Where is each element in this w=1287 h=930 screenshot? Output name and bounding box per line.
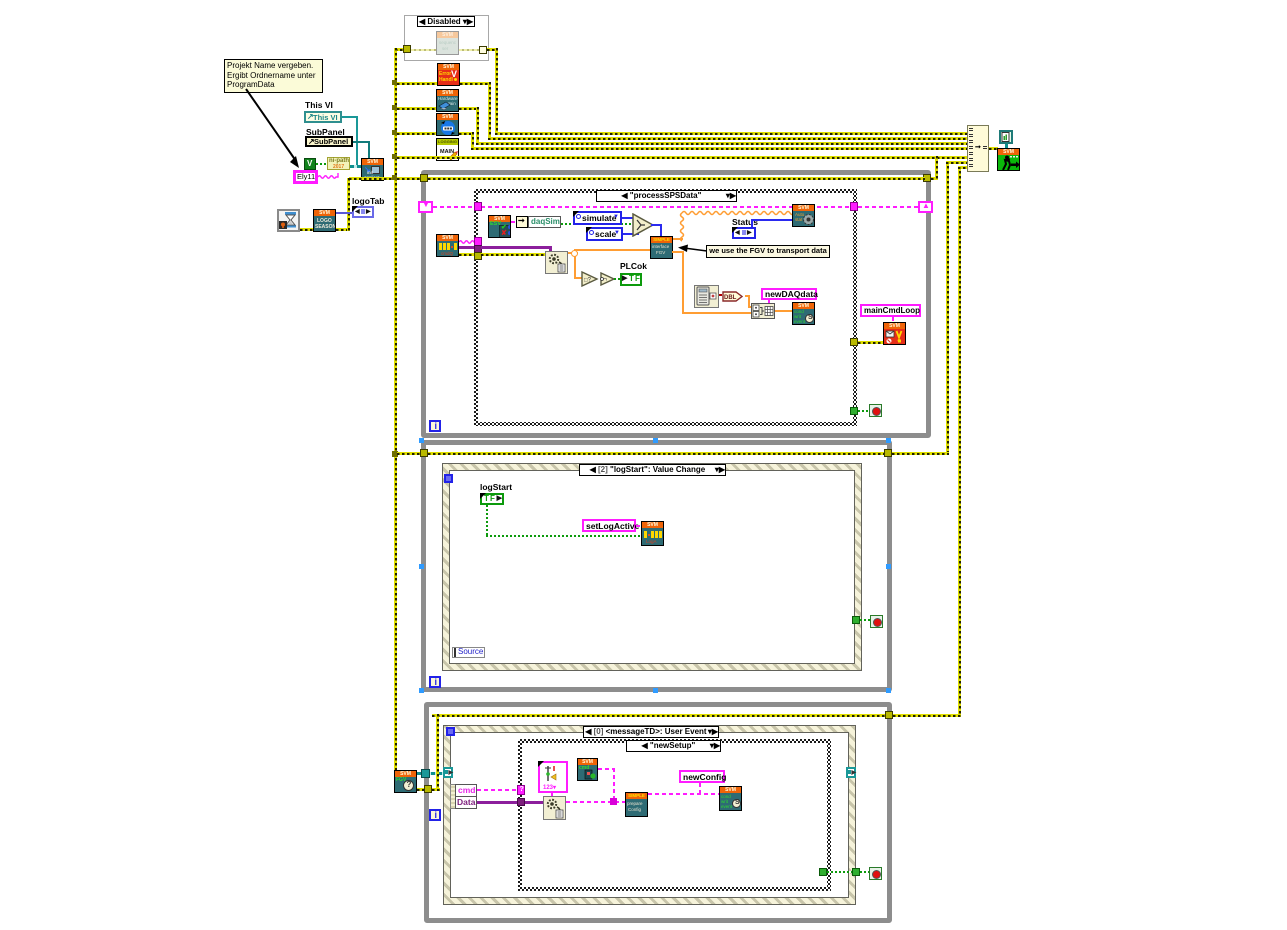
- tunnel case1 error: [474, 252, 482, 260]
- label logoTab: [352, 196, 384, 206]
- shift register right (pink): [918, 201, 933, 213]
- tunnel case1 bottom-right green: [850, 407, 858, 415]
- orange wire FGV down to bundle: [672, 251, 684, 253]
- green wire to stop3: [860, 871, 870, 873]
- comment: Projekt Name vergeben: [224, 59, 323, 93]
- dynamic event terminal left: [443, 767, 453, 778]
- label logStart: [480, 482, 512, 492]
- VI SVM scheduler: [436, 113, 459, 136]
- disabled grayed SVM icon: [436, 31, 459, 55]
- label This VI: [305, 100, 333, 110]
- VI LOGO SEASON: [313, 209, 336, 232]
- tunnel loop2 right: [884, 449, 892, 457]
- green wire case3 to event border: [827, 871, 854, 873]
- pink wire newConfig down: [699, 783, 701, 793]
- error wire across loop1 top: [428, 177, 925, 180]
- boolean constant V: [304, 158, 316, 170]
- purple wire in case to gears: [481, 246, 552, 249]
- orange wire bundle to cond write: [775, 310, 792, 312]
- label SubPanel: [306, 127, 345, 137]
- error wire merge to exit VI: [989, 147, 998, 150]
- error wires Hardware Main: [397, 107, 436, 110]
- VI locked hourglass: [277, 209, 300, 232]
- comment arrow (we use the FGV): [676, 243, 710, 255]
- error wire into loop1 left tunnel: [397, 177, 424, 180]
- iteration terminal i loop3: [429, 809, 441, 821]
- label PLCok: [620, 261, 647, 271]
- string daqSim: [528, 216, 561, 228]
- pale wire inside disabled: [411, 49, 436, 51]
- VI SVM AutoStat: [792, 204, 815, 227]
- stop button 2: [870, 615, 883, 628]
- tunnel case1 pink wavy: [474, 237, 482, 246]
- green wire to stop2: [860, 619, 871, 621]
- event structure 3 title: [583, 726, 719, 738]
- arrow from comment to Ely11: [220, 85, 315, 180]
- blue wire select to FGV: [651, 224, 662, 226]
- terminal logStart: [480, 493, 504, 505]
- stop button 3: [869, 867, 882, 880]
- tunnel case3 pink ?: [517, 785, 525, 795]
- tunnel case1 right pink: [850, 202, 858, 211]
- waveform wavy wire FGV up and right: [670, 210, 796, 245]
- pink wire label to red SVM: [892, 317, 894, 323]
- event timeout terminal loop2: [444, 474, 453, 483]
- error wire: disabled left tunnel to main vertical: [395, 48, 403, 51]
- error wire cmdQ to case: [459, 253, 475, 256]
- control This VI (VI refnum): [304, 111, 342, 123]
- tunnel case1 purple: [474, 245, 482, 253]
- purple wire Data to case3 and gears: [477, 801, 544, 804]
- error wire across loop2: [428, 452, 886, 455]
- VI SVM setLogActive: [641, 521, 664, 546]
- case 1 title: [596, 190, 737, 202]
- pink wire SVM cmd right-down to prepare wire: [598, 768, 615, 770]
- blue wires enums to select: [622, 217, 638, 219]
- VI SIMPLE prepare Config: [625, 792, 648, 817]
- enum scale: [586, 227, 623, 241]
- cluster cmd/Data: [450, 784, 477, 809]
- dynamic event terminal right: [846, 767, 856, 778]
- arrow box (to-string): [516, 216, 528, 228]
- pink wire setLogActive to SVM: [636, 525, 643, 527]
- iteration terminal i loop1: [429, 420, 441, 432]
- teal class wire FGV to event register: [417, 772, 444, 775]
- label Source: [452, 647, 485, 658]
- merge errors node: [967, 125, 989, 172]
- orange wires from gears: [568, 252, 578, 254]
- wire This VI teal: [342, 116, 358, 118]
- label Status: [732, 217, 758, 227]
- error wire LOGO SEASON up to main error line: [336, 228, 349, 231]
- case structure 3 (newSetup): [518, 739, 831, 891]
- label setLogActive: [582, 519, 636, 532]
- svg-text:DBL: DBL: [724, 295, 737, 301]
- error wire LOGGING MAIN row: [397, 156, 968, 159]
- orange wire DBL to bundle: [745, 295, 750, 297]
- tunnel loop1 top right: [923, 174, 931, 182]
- svg-text:□?: □?: [584, 278, 592, 284]
- terminal logoTab: [352, 206, 374, 218]
- while loop 3 border: [424, 702, 892, 923]
- wire LOGO SEASON to logoTab (blue-violet): [336, 212, 353, 214]
- iteration terminal i loop2: [429, 676, 441, 688]
- VI SVM FGV (outside loop3): [394, 770, 417, 793]
- green wire daqSim to select: [561, 223, 635, 225]
- green wire logStart down to SVM: [486, 505, 488, 537]
- VI SVM Error Handling: [437, 63, 460, 86]
- VI LOGGING MAIN: [436, 138, 459, 161]
- not triangle 2: [600, 272, 616, 286]
- tunnel case1 right error: [850, 338, 858, 346]
- constant typedef (pink box): [538, 761, 568, 793]
- error wire from loop3 right to merge (vertical x=966): [958, 166, 961, 717]
- VI SVM cond write (loop1): [792, 302, 815, 325]
- green wire to stop1: [858, 410, 870, 412]
- error wire from init applicat along y=178: [349, 177, 421, 180]
- label newDAQdata: [761, 288, 817, 300]
- tunnel loop3 left teal: [421, 769, 430, 778]
- error wire in case to gears: [481, 253, 545, 256]
- label newConfig: [679, 770, 725, 783]
- blue wire Status to AutoStat: [751, 219, 753, 227]
- tunnel loop2 left: [420, 449, 428, 457]
- while loop 1 border: [421, 170, 931, 438]
- VI SIMPLE interface FGV: [650, 236, 673, 259]
- error wire FGV to loop3 tunnel: [417, 788, 429, 791]
- error wire to red SVM: [858, 341, 883, 344]
- VI SVM exit (running man): [997, 148, 1020, 171]
- event structure 2: [443, 464, 861, 670]
- tunnel loop3 right: [885, 711, 893, 719]
- pink wire constant down to gears: [551, 793, 553, 798]
- tunnel case3 right green: [819, 868, 827, 876]
- pink wire gears to prepare Config: [566, 801, 626, 803]
- error wire inside loop3 top: [432, 714, 887, 717]
- wire V to ni-path green dashed: [316, 163, 327, 165]
- teal wire file icon to exit VI: [1005, 144, 1008, 149]
- svg-text:123▾: 123▾: [543, 785, 557, 791]
- VI device DAQ: [694, 285, 719, 308]
- pink wire ESV to arrow box: [511, 221, 517, 223]
- event structure 2 title: [579, 464, 726, 476]
- red dashed wire device to DBL: [719, 294, 724, 296]
- string constant Ely11: [293, 170, 318, 184]
- VI SVM daq ESV: [488, 215, 511, 238]
- event timeout terminal loop3: [446, 727, 455, 736]
- pink wavy wire cmdQ to case: [459, 238, 476, 246]
- tunnel case3 purple: [517, 798, 525, 806]
- error wire loop2 to vertical: [892, 452, 949, 455]
- wire ni-path to init applicat (teal dashed): [350, 165, 361, 168]
- VI SVM Hardware Main: [436, 89, 459, 112]
- pink wire SR to case: [433, 206, 475, 208]
- VI SVM cmdQ: [436, 234, 459, 257]
- error wire from loop1 top-right tunnel up to merge: [931, 177, 938, 180]
- selection handles loop2: [419, 438, 424, 443]
- pink wire cmd to case3: [477, 789, 519, 791]
- stop button 1: [869, 404, 882, 417]
- error wire hourglass to LOGO SEASON: [300, 228, 313, 231]
- VI SVM cmd small (loop3): [577, 758, 598, 781]
- junction dots on main vertical: [392, 80, 397, 85]
- select node triangle: [632, 213, 654, 237]
- main error vertical x=395: [394, 48, 397, 771]
- wire SubPanel: [353, 141, 370, 143]
- tunnel disabled left: [403, 45, 411, 53]
- tunnel loop3 left error: [424, 785, 432, 793]
- case structure 1: [474, 189, 857, 426]
- VI init applicat: [361, 158, 384, 181]
- diagram disable structure "Disabled": [404, 15, 489, 61]
- VI gears parse (loop3): [543, 796, 566, 820]
- control SubPanel: [305, 136, 353, 147]
- indicator PLCok: [620, 273, 642, 286]
- while loop 2 border: [421, 440, 892, 692]
- ni-path VI: [327, 157, 350, 170]
- label mainCmdLoop: [860, 304, 921, 317]
- DBL coercion: [722, 291, 743, 302]
- junction green on event3 border: [852, 868, 860, 876]
- shift register left (pink): [418, 201, 433, 213]
- indicator Status: [732, 227, 756, 239]
- error wire into loop2: [397, 452, 424, 455]
- tunnel case1 pink top: [474, 202, 482, 211]
- tunnel loop1 left: [420, 174, 428, 182]
- error wire loop3 to vertical: [893, 714, 961, 717]
- pink wire prepare Config to cond write: [648, 793, 720, 795]
- VI SVM error red (mainCmdLoop): [883, 322, 906, 345]
- constant file icon: [999, 130, 1013, 144]
- comparison triangle 1: [581, 271, 599, 287]
- enum simulate: [573, 211, 622, 225]
- comment: we use the FGV to transport data: [706, 245, 830, 258]
- bundle node: [751, 303, 775, 319]
- event structure 3: [444, 726, 855, 904]
- VI gears parse (loop1): [545, 251, 568, 274]
- error wire from loop2 right to merge (vertical x=956): [946, 161, 949, 455]
- purple wire cmdQ to case: [459, 246, 475, 249]
- tunnel event2 right green: [852, 616, 860, 624]
- error wire: disabled right tunnel over and down to merge: [487, 48, 497, 51]
- error wires scheduler: [397, 132, 436, 135]
- VI SVM cond write (loop3): [719, 786, 742, 811]
- pink wire across case to right SR: [481, 206, 918, 208]
- wire Ely11 pink squiggle: [318, 171, 342, 180]
- tunnel disabled right: [479, 46, 487, 54]
- pink wire to right SR: [858, 206, 918, 208]
- case 3 title: [626, 740, 721, 752]
- green wire to PLCok: [614, 278, 621, 280]
- error wires SVM Error Handling: [397, 82, 437, 85]
